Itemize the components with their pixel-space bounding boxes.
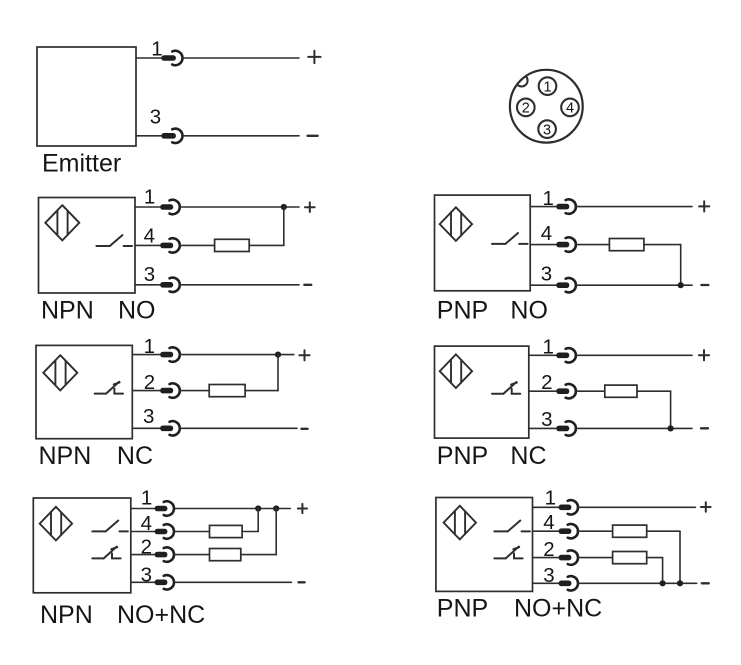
sensor body (NPN NC) bbox=[36, 345, 132, 438]
pin 4 label bbox=[144, 225, 155, 248]
junction riser wire bbox=[283, 207, 285, 245]
svg-text:3: 3 bbox=[541, 408, 552, 431]
- terminal bbox=[308, 135, 318, 137]
load to junction wire bbox=[249, 244, 284, 246]
svg-text:4: 4 bbox=[541, 222, 552, 245]
pin 1 connector bbox=[556, 199, 576, 213]
- terminal bbox=[701, 284, 708, 286]
svg-text:4: 4 bbox=[144, 225, 155, 248]
NO switch contact bbox=[92, 521, 128, 532]
pin 3 connector bbox=[559, 576, 578, 590]
pin 3 connector bbox=[556, 421, 576, 435]
svg-text:NC: NC bbox=[117, 442, 153, 470]
+ terminal bbox=[308, 51, 320, 63]
pin 3 wire (connector to -) bbox=[576, 284, 692, 286]
pin 1 connector bbox=[160, 347, 180, 361]
pin 1 wire (box to connector) bbox=[530, 206, 558, 208]
pin 2 wire (connector to load) bbox=[576, 390, 605, 392]
junction riser wire bbox=[257, 509, 259, 532]
pin 1 label bbox=[545, 487, 556, 510]
pin 4 wire (connector to load) bbox=[576, 244, 609, 246]
svg-text:1: 1 bbox=[151, 37, 162, 60]
pin 1 connector bbox=[160, 200, 180, 214]
NPN label bbox=[41, 296, 94, 324]
svg-text:3: 3 bbox=[141, 563, 152, 586]
pin 3 wire (connector to -) bbox=[180, 284, 299, 286]
pin 1 label bbox=[141, 487, 152, 510]
optical sensor symbol bbox=[43, 355, 77, 390]
pin 4 wire (box to connector) bbox=[533, 530, 561, 532]
pin 4 connector bbox=[559, 524, 578, 538]
pin 3 label bbox=[150, 105, 161, 128]
pin 4 wire (box to connector) bbox=[131, 531, 156, 533]
junction node bbox=[668, 425, 674, 431]
pin 4 wire (box to connector) bbox=[135, 244, 162, 246]
NO+NC label bbox=[514, 595, 602, 623]
pin 3 connector bbox=[160, 421, 180, 435]
pin 2 wire (connector to load) bbox=[180, 390, 209, 392]
pin 2 connector bbox=[155, 547, 174, 561]
connector face pin 2 bbox=[517, 99, 535, 117]
NO load resistor bbox=[210, 525, 243, 537]
- terminal bbox=[298, 581, 304, 583]
pin 3 wire (box to connector) bbox=[530, 284, 558, 286]
junction riser wire bbox=[277, 355, 279, 391]
+ terminal bbox=[699, 201, 709, 211]
pin 3 wire (box to connector) bbox=[136, 135, 163, 137]
NC switch contact bbox=[494, 547, 522, 559]
NC label bbox=[117, 442, 153, 470]
pin 4 connector bbox=[160, 238, 180, 252]
svg-text:NPN: NPN bbox=[39, 442, 92, 470]
sensor body (NPN NO) bbox=[39, 198, 136, 294]
pin 2 wire (box to connector) bbox=[529, 390, 558, 392]
pin 4 label bbox=[541, 222, 552, 245]
junction riser wire bbox=[275, 509, 277, 555]
svg-text:2: 2 bbox=[141, 535, 152, 558]
pin 1 connector bbox=[556, 348, 576, 362]
pin 3 wire (box to connector) bbox=[131, 581, 156, 583]
pin 1 wire (connector to +) bbox=[576, 354, 692, 356]
- terminal bbox=[702, 582, 709, 584]
pin 1 wire (connector to +) bbox=[578, 506, 695, 508]
+ terminal bbox=[305, 202, 315, 212]
svg-text:2: 2 bbox=[541, 371, 552, 394]
NC switch contact bbox=[492, 382, 520, 394]
sensor body (Emitter) bbox=[37, 47, 136, 146]
svg-text:NO: NO bbox=[118, 296, 156, 324]
load to junction wire bbox=[241, 554, 276, 556]
pin 2 wire (connector to load) bbox=[578, 557, 612, 559]
+ terminal bbox=[298, 504, 307, 513]
pin 3 wire (connector to -) bbox=[180, 427, 297, 429]
pin 3 label bbox=[541, 263, 552, 286]
pin 2 connector bbox=[556, 384, 576, 398]
NO switch contact bbox=[492, 233, 528, 244]
svg-text:1: 1 bbox=[144, 335, 155, 358]
load to junction wire bbox=[242, 531, 258, 533]
NC switch contact bbox=[95, 382, 123, 394]
sensor body (NPN NO+NC) bbox=[33, 498, 131, 593]
optical sensor symbol bbox=[40, 507, 72, 541]
pin 4 label bbox=[141, 512, 152, 535]
svg-text:PNP: PNP bbox=[437, 595, 488, 623]
svg-text:1: 1 bbox=[542, 335, 553, 358]
pin 1 label bbox=[151, 37, 162, 60]
NO+NC label bbox=[117, 601, 205, 629]
NC label bbox=[510, 442, 546, 470]
svg-text:3: 3 bbox=[144, 263, 155, 286]
NO switch contact bbox=[494, 521, 530, 532]
pin 1 wire (box to connector) bbox=[136, 57, 163, 59]
pin 3 connector bbox=[160, 278, 180, 292]
optical sensor symbol bbox=[440, 354, 472, 388]
pin 1 connector bbox=[155, 501, 174, 515]
pin 1 wire (box to connector) bbox=[135, 206, 162, 208]
svg-text:Emitter: Emitter bbox=[42, 149, 121, 177]
svg-text:1: 1 bbox=[543, 79, 551, 95]
- terminal bbox=[701, 427, 708, 429]
pin 1 wire (connector to +) bbox=[182, 57, 299, 59]
pin 3 wire (box to connector) bbox=[533, 582, 561, 584]
+ terminal bbox=[699, 350, 709, 360]
pin 1 wire (connector to +) bbox=[180, 206, 299, 208]
svg-text:2: 2 bbox=[144, 371, 155, 394]
svg-text:1: 1 bbox=[144, 186, 155, 209]
pin 2 label bbox=[543, 538, 554, 561]
pin 4 connector bbox=[155, 524, 174, 538]
junction dropper wire bbox=[679, 531, 681, 583]
pin 4 connector bbox=[556, 237, 576, 251]
pin 3 wire (box to connector) bbox=[135, 284, 162, 286]
junction node bbox=[678, 282, 684, 288]
svg-text:1: 1 bbox=[545, 487, 556, 510]
load to junction wire bbox=[644, 244, 681, 246]
svg-text:3: 3 bbox=[143, 405, 154, 428]
svg-text:3: 3 bbox=[150, 105, 161, 128]
junction dropper wire bbox=[662, 558, 664, 584]
pin 1 label bbox=[144, 186, 155, 209]
pin 1 wire (box to connector) bbox=[533, 506, 561, 508]
NO label bbox=[118, 296, 156, 324]
pin 3 wire (connector to -) bbox=[175, 581, 292, 583]
pin 3 label bbox=[143, 405, 154, 428]
load to junction wire bbox=[647, 557, 663, 559]
svg-text:PNP: PNP bbox=[437, 297, 488, 325]
pin 4 wire (connector to load) bbox=[578, 530, 612, 532]
NC switch contact bbox=[92, 547, 120, 559]
NO label bbox=[510, 297, 548, 325]
pin 1 wire (box to connector) bbox=[529, 354, 558, 356]
load resistor bbox=[609, 239, 644, 251]
+ terminal bbox=[701, 502, 711, 512]
connector face pin 4 bbox=[561, 99, 579, 117]
svg-text:3: 3 bbox=[541, 263, 552, 286]
pin 2 wire (box to connector) bbox=[131, 554, 156, 556]
pin 3 connector bbox=[556, 278, 576, 292]
svg-text:1: 1 bbox=[141, 487, 152, 510]
pin 3 label bbox=[543, 564, 554, 587]
svg-text:2: 2 bbox=[522, 101, 530, 117]
PNP label bbox=[437, 297, 488, 325]
svg-text:NO+NC: NO+NC bbox=[514, 595, 602, 623]
NO switch contact bbox=[96, 235, 132, 246]
junction node B bbox=[273, 505, 279, 511]
svg-text:NPN: NPN bbox=[40, 601, 93, 629]
sensor body (PNP NO+NC) bbox=[436, 498, 533, 592]
pin 3 label bbox=[141, 563, 152, 586]
- terminal bbox=[304, 284, 311, 286]
svg-text:NC: NC bbox=[510, 442, 546, 470]
pin 2 wire (box to connector) bbox=[533, 557, 561, 559]
NC load resistor bbox=[613, 552, 647, 564]
svg-text:2: 2 bbox=[543, 538, 554, 561]
connector face outer circle bbox=[510, 70, 583, 143]
pin 3 label bbox=[541, 408, 552, 431]
load to junction wire bbox=[647, 530, 680, 532]
pin 2 connector bbox=[160, 383, 180, 397]
optical sensor symbol bbox=[440, 207, 472, 241]
+ terminal bbox=[299, 350, 309, 360]
pin 1 wire (box to connector) bbox=[131, 508, 156, 510]
sensor body (PNP NC) bbox=[435, 346, 529, 438]
pin 2 label bbox=[141, 535, 152, 558]
pin 3 label bbox=[144, 263, 155, 286]
pin 4 wire (connector to load) bbox=[180, 244, 214, 246]
NO load resistor bbox=[613, 525, 647, 537]
optical sensor symbol bbox=[45, 205, 79, 240]
svg-text:NO+NC: NO+NC bbox=[117, 601, 205, 629]
svg-text:4: 4 bbox=[566, 101, 574, 117]
pin 4 label bbox=[543, 511, 554, 534]
svg-text:NO: NO bbox=[510, 297, 548, 325]
pin 4 wire (connector to load) bbox=[175, 531, 210, 533]
connector face pin 3 bbox=[538, 120, 556, 138]
- terminal bbox=[301, 428, 307, 430]
connector keying notch bbox=[516, 75, 528, 87]
optical sensor symbol bbox=[444, 506, 476, 540]
pin 1 label bbox=[542, 187, 553, 210]
pin 1 wire (connector to +) bbox=[180, 354, 294, 356]
PNP label bbox=[437, 442, 488, 470]
pin 3 connector bbox=[155, 575, 174, 589]
load resistor bbox=[215, 239, 250, 251]
svg-text:3: 3 bbox=[543, 564, 554, 587]
pin 1 connector bbox=[161, 51, 182, 65]
junction node A bbox=[255, 505, 261, 511]
NC load resistor bbox=[210, 549, 241, 561]
pin 1 label bbox=[144, 335, 155, 358]
pin 1 connector bbox=[559, 500, 578, 514]
pin 1 wire (connector to +) bbox=[175, 508, 291, 510]
connector face pin 1 bbox=[539, 77, 557, 95]
load resistor bbox=[209, 385, 245, 397]
pin 3 wire (connector to -) bbox=[578, 582, 696, 584]
pin 3 wire (connector to -) bbox=[182, 135, 299, 137]
svg-text:4: 4 bbox=[141, 512, 152, 535]
pin 2 label bbox=[144, 371, 155, 394]
load resistor bbox=[605, 385, 637, 397]
junction dropper wire bbox=[670, 391, 672, 428]
pin 3 wire (box to connector) bbox=[529, 427, 558, 429]
load to junction wire bbox=[637, 390, 671, 392]
junction node bbox=[281, 204, 287, 210]
pin 4 wire (box to connector) bbox=[530, 244, 558, 246]
svg-text:NPN: NPN bbox=[41, 296, 94, 324]
svg-text:3: 3 bbox=[543, 122, 551, 138]
pin 1 label bbox=[542, 335, 553, 358]
pin 2 wire (box to connector) bbox=[132, 390, 161, 392]
pin 1 wire (box to connector) bbox=[132, 354, 161, 356]
pin 3 connector bbox=[161, 129, 182, 143]
junction node B bbox=[677, 580, 683, 586]
junction dropper wire bbox=[680, 245, 682, 286]
Emitter label bbox=[42, 149, 121, 177]
junction node bbox=[275, 352, 281, 358]
pin 2 label bbox=[541, 371, 552, 394]
junction node A bbox=[660, 580, 666, 586]
pin 3 wire (box to connector) bbox=[132, 427, 161, 429]
pin 1 wire (connector to +) bbox=[576, 206, 692, 208]
NPN label bbox=[39, 442, 92, 470]
svg-text:PNP: PNP bbox=[437, 442, 488, 470]
PNP label bbox=[437, 595, 488, 623]
pin 2 wire (connector to load) bbox=[175, 554, 210, 556]
load to junction wire bbox=[245, 390, 278, 392]
pin 3 wire (connector to -) bbox=[576, 427, 692, 429]
pin 2 connector bbox=[559, 550, 578, 564]
NPN label bbox=[40, 601, 93, 629]
sensor body (PNP NO) bbox=[435, 195, 531, 291]
svg-text:1: 1 bbox=[542, 187, 553, 210]
svg-text:4: 4 bbox=[543, 511, 554, 534]
